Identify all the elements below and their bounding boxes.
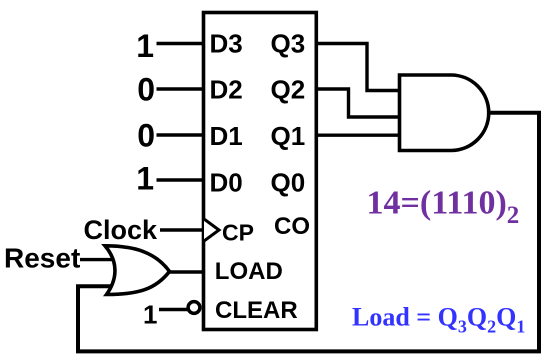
clock edge triangle on CP pin <box>204 219 219 241</box>
svg-text:D2: D2 <box>210 75 243 105</box>
CLEAR bubble <box>188 302 200 314</box>
svg-text:D1: D1 <box>210 121 243 151</box>
wire constant 1 to CLEAR bubble <box>159 308 189 311</box>
svg-text:0: 0 <box>137 72 155 108</box>
svg-text:0: 0 <box>137 117 155 153</box>
svg-text:Reset: Reset <box>4 242 80 273</box>
wire D3 input <box>157 42 205 45</box>
svg-text:Q3: Q3 <box>271 28 306 58</box>
register U1 box <box>204 13 317 330</box>
wire D1 input <box>157 133 205 136</box>
svg-text:CO: CO <box>274 213 310 240</box>
svg-text:D0: D0 <box>210 167 243 197</box>
wire Q2 to AND input 2 <box>316 89 400 117</box>
svg-text:Clock: Clock <box>83 215 158 245</box>
wire D0 input <box>157 178 205 181</box>
svg-text:Q1: Q1 <box>271 121 306 151</box>
svg-text:Q2: Q2 <box>271 75 306 105</box>
svg-text:1: 1 <box>136 28 154 64</box>
wire Q1 to AND input 3 <box>316 133 400 136</box>
svg-text:CLEAR: CLEAR <box>215 297 298 324</box>
wire Reset to OR input <box>80 258 114 261</box>
svg-text:1: 1 <box>143 300 157 330</box>
svg-text:Load = Q3Q2Q1: Load = Q3Q2Q1 <box>352 303 525 337</box>
wire Q3 to AND input 1 <box>315 44 400 91</box>
wire D2 input <box>157 87 205 90</box>
svg-text:LOAD: LOAD <box>215 258 283 285</box>
wire AND output feedback to OR input <box>78 113 539 352</box>
svg-text:1: 1 <box>136 160 154 196</box>
wire OR output to LOAD <box>168 270 204 273</box>
AND gate U2 <box>400 75 489 151</box>
svg-text:Q0: Q0 <box>271 167 306 197</box>
svg-text:CP: CP <box>222 220 254 246</box>
OR gate U3 <box>105 246 170 295</box>
wire Clock to CP <box>160 228 204 231</box>
svg-text:D3: D3 <box>210 28 243 58</box>
